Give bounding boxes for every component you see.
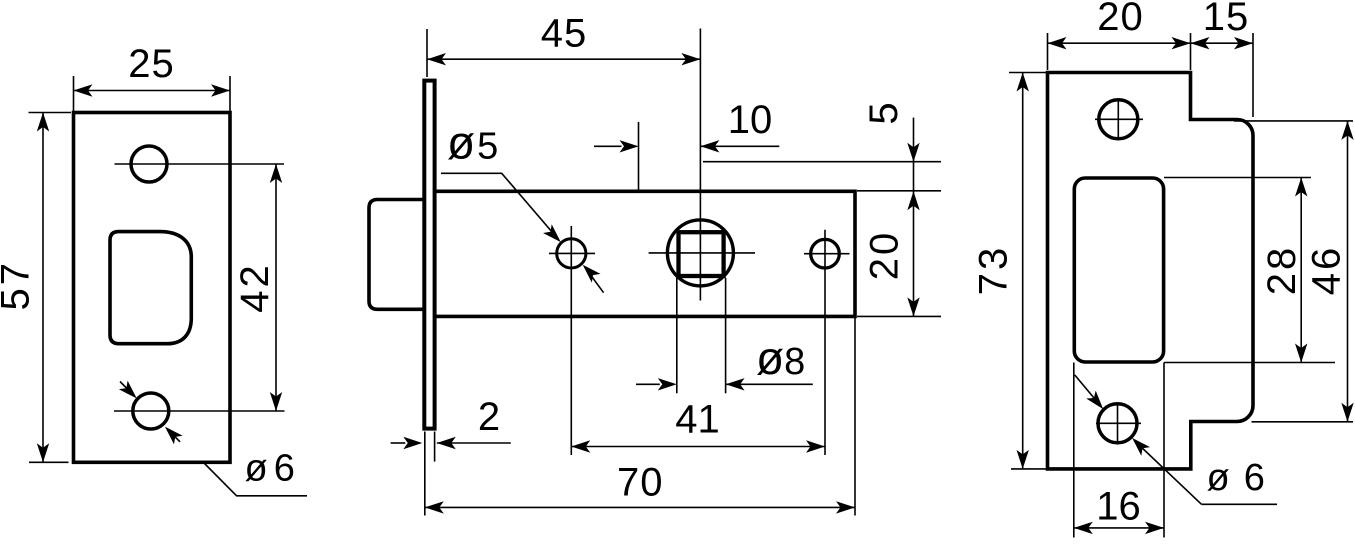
svg-text:57: 57 (0, 260, 38, 311)
svg-text:ø8: ø8 (756, 332, 805, 384)
svg-text:15: 15 (1203, 0, 1250, 39)
dim 70 line (425, 506, 855, 508)
dia6 leader horizontal (1202, 503, 1278, 505)
strike cutout (1074, 178, 1163, 362)
svg-text:41: 41 (675, 398, 720, 442)
dim 10 line left (594, 145, 622, 147)
centerline dia5 vertical (570, 226, 572, 455)
svg-text:25: 25 (128, 42, 175, 86)
svg-text:ø5: ø5 (447, 117, 498, 169)
dim 46 bottom extension (1252, 421, 1354, 423)
faceplate outline (74, 113, 231, 463)
dim 46 top extension (1234, 120, 1353, 122)
dim 70 extension right (854, 316, 856, 515)
strike top hole (1099, 100, 1138, 139)
centerline spindle vertical (699, 29, 701, 301)
centerline spindle horizontal (649, 252, 755, 254)
svg-text:45: 45 (541, 12, 588, 56)
svg-text:20: 20 (863, 230, 907, 281)
latch body (435, 191, 855, 316)
svg-text:10: 10 (728, 98, 773, 142)
dia8 dim right (726, 383, 813, 385)
top hole centerline (115, 163, 285, 165)
faceplate top screw hole (131, 146, 167, 182)
strike top hole cross (1095, 118, 1143, 120)
dim 28 bottom extension (1164, 362, 1335, 364)
dim 2 line right (437, 442, 511, 444)
right hole (811, 239, 840, 268)
dim 5 and 20 line (913, 118, 915, 317)
dim 46 line (1347, 121, 1349, 422)
dia5 arrow lower (585, 267, 604, 292)
dim 45 line (427, 58, 700, 60)
dim 16 line (1074, 527, 1164, 529)
faceplate edge-on (424, 81, 434, 429)
dim 10 extension (638, 122, 640, 191)
body top edge extension (857, 190, 941, 192)
strike bottom hole (1098, 404, 1137, 443)
svg-text:70: 70 (617, 461, 664, 505)
faceplate latch cutout (110, 232, 191, 344)
dia6 leader (205, 464, 308, 496)
body bottom edge extension (857, 315, 941, 317)
svg-text:28: 28 (1260, 245, 1304, 296)
svg-text:16: 16 (1096, 485, 1141, 529)
dims 20 15 extension lines (1047, 33, 1049, 70)
strike bottom hole cross (1096, 422, 1141, 424)
dims 20 15 line (1048, 42, 1254, 44)
dia6 leader right view (1075, 375, 1101, 406)
svg-text:ø6: ø6 (1207, 457, 1265, 499)
dim 16 extension lines (1073, 363, 1075, 538)
centerline right hole horizontal (804, 253, 850, 255)
strike plate outline (1048, 73, 1254, 469)
svg-text:ø6: ø6 (245, 448, 295, 490)
dim 28 line (1300, 178, 1302, 363)
svg-text:42: 42 (233, 262, 277, 313)
svg-text:2: 2 (478, 395, 500, 439)
dim 28 top extension (1164, 177, 1311, 179)
dim 10 line right (700, 145, 779, 147)
dia6 arrow lower right view (1135, 441, 1202, 505)
dia5 leader (441, 173, 559, 239)
dim 25 extension lines (73, 76, 75, 111)
faceplate bottom screw hole (133, 393, 169, 429)
dim 73 line (1022, 73, 1024, 469)
svg-text:73: 73 (972, 245, 1016, 296)
svg-text:20: 20 (1097, 0, 1144, 39)
dia6 arrow upper (120, 382, 134, 396)
dim 73 extension lines (1009, 72, 1046, 74)
dim 25 line (74, 90, 231, 92)
dim 5 reference line (703, 161, 941, 163)
dim 2 line left (391, 442, 406, 444)
bottom hole centerline (114, 410, 285, 412)
svg-text:46: 46 (1305, 245, 1349, 296)
dim 2 extension lines (424, 432, 426, 516)
dim 41 line (571, 446, 825, 448)
centerline right hole vertical (824, 230, 826, 455)
dia8 dim left (636, 383, 660, 385)
dim 57 line (42, 113, 44, 463)
dim 45 extension (426, 29, 428, 77)
dia8 extension lines (676, 278, 678, 393)
svg-text:5: 5 (862, 102, 906, 124)
dim 57 extension lines (29, 112, 72, 114)
dim 42 line (275, 164, 277, 411)
small hole dia5 (557, 239, 586, 268)
dia6 arrow lower (168, 429, 181, 442)
centerline dia5 horizontal (549, 252, 595, 254)
spindle square hole (679, 232, 724, 276)
spindle circle (667, 220, 733, 286)
latch bolt (369, 200, 425, 310)
